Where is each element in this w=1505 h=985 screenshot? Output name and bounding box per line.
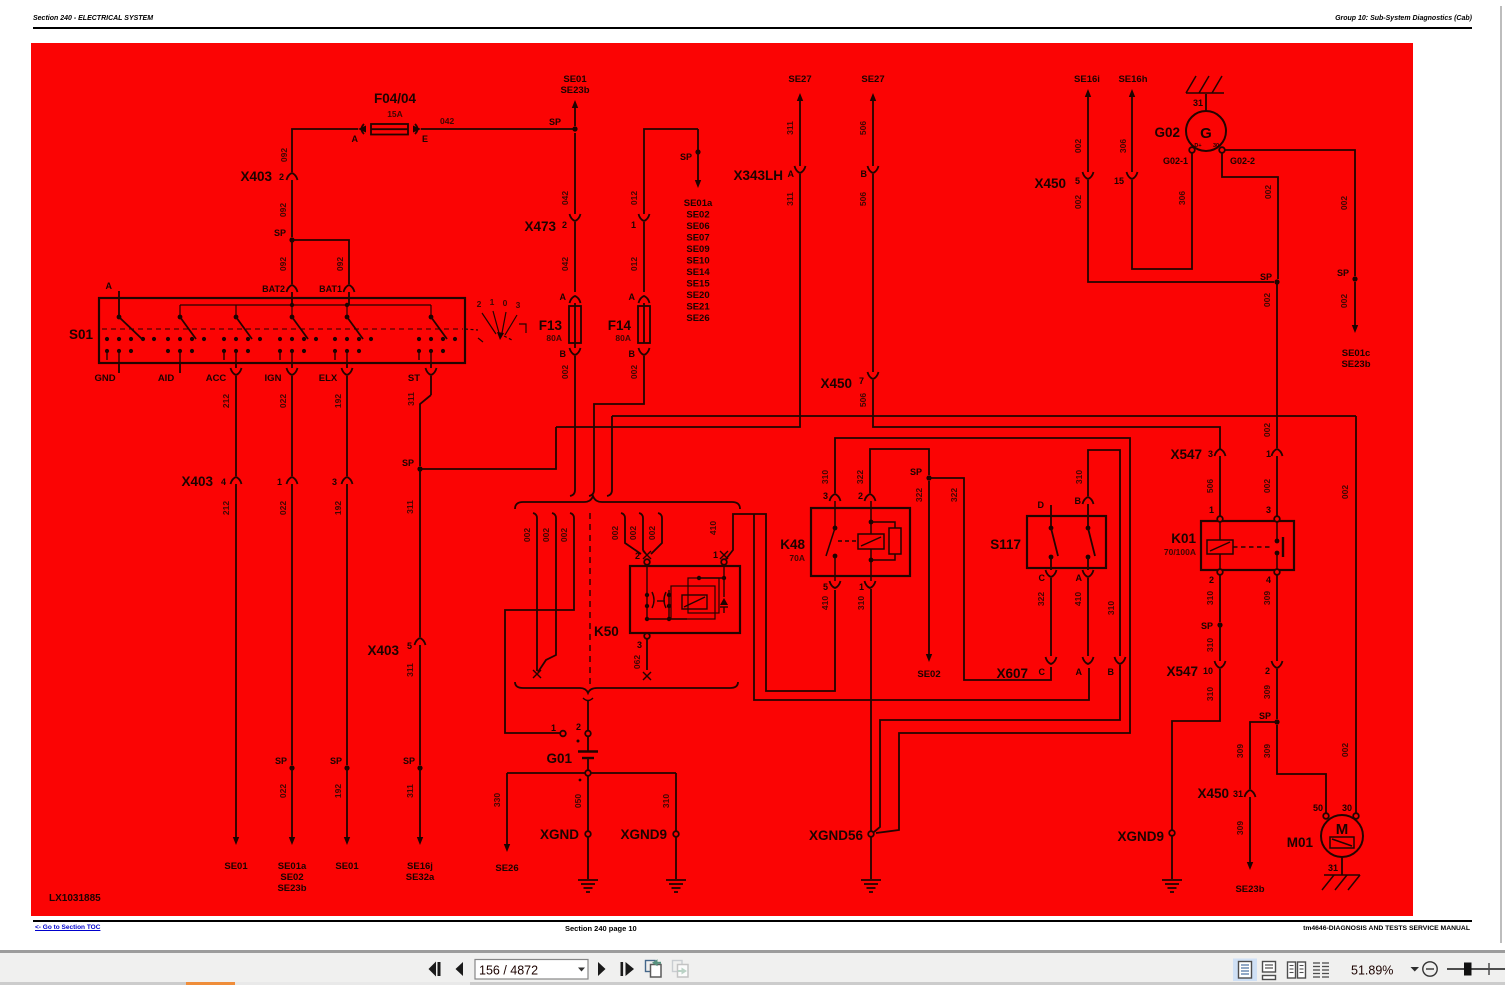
svg-text:002: 002 (1339, 294, 1349, 308)
svg-text:002: 002 (541, 528, 551, 542)
wire 192 SP to SE01 (346, 768, 348, 837)
svg-text:311: 311 (405, 784, 415, 798)
svg-text:SE07: SE07 (686, 233, 709, 244)
node SP on ST wire (417, 466, 422, 471)
starter motor M01 (1323, 813, 1329, 819)
wire 306 SE16h to X450-15 (1129, 89, 1135, 97)
svg-text:X450: X450 (820, 376, 852, 391)
wire 092 X403-2 to SP (291, 180, 293, 237)
svg-text:B: B (560, 349, 567, 359)
svg-text:SP: SP (1201, 621, 1213, 631)
svg-text:X403: X403 (240, 169, 272, 184)
svg-text:SE02: SE02 (280, 872, 303, 883)
svg-text:0: 0 (503, 298, 508, 308)
footer TOC link (35, 924, 100, 931)
K48 switch contact (826, 501, 857, 581)
taskbar light segment (235, 982, 470, 985)
svg-text:1: 1 (631, 220, 636, 230)
svg-text:SP: SP (275, 756, 287, 766)
svg-text:012: 012 (629, 191, 639, 205)
wire 002 G02-2 east run (1225, 150, 1355, 276)
K48 pin 1 (865, 581, 876, 588)
svg-text:IGN: IGN (265, 373, 282, 384)
wire 309 X450-31 to SE23b (1249, 797, 1251, 862)
svg-text:2: 2 (279, 172, 284, 182)
wire 002 F14 to bus brace (589, 356, 644, 496)
svg-text:X403: X403 (181, 474, 213, 489)
svg-text:192: 192 (333, 501, 343, 515)
node SP above SE01a list (697, 129, 699, 150)
wire 002 SP to X547-1 (1276, 282, 1278, 448)
alternator G02 (1186, 111, 1226, 151)
svg-text:G: G (1200, 125, 1212, 142)
wire 311 X343LH-A south run (556, 174, 800, 427)
footer rule (33, 920, 1472, 922)
svg-text:30: 30 (1213, 143, 1219, 149)
svg-text:4: 4 (1266, 575, 1271, 585)
wire 002 F13 to bus brace (574, 343, 576, 348)
connector X343LH pin B (868, 166, 879, 173)
svg-text:SE15: SE15 (686, 279, 710, 290)
svg-text:002: 002 (647, 526, 657, 540)
svg-text:F04/04: F04/04 (374, 91, 417, 106)
svg-text:SE01c: SE01c (1342, 348, 1371, 359)
wire 012 X343LH loop to X473-1 (644, 129, 698, 214)
svg-text:322: 322 (855, 470, 865, 484)
ground XGND9 (673, 831, 679, 837)
connector X450 pin 15 (1127, 172, 1138, 179)
S01 internal linkage rail (180, 305, 431, 317)
svg-text:310: 310 (1205, 591, 1215, 605)
svg-text:002: 002 (629, 365, 639, 379)
svg-text:5: 5 (823, 582, 828, 592)
wire 322 K48-2 to SP (870, 449, 929, 493)
wire 042 X473-2 to F13 (574, 222, 576, 292)
svg-text:410: 410 (1073, 592, 1083, 606)
svg-text:A: A (1076, 573, 1083, 583)
node SP on 192 wire (344, 765, 349, 770)
fuse F13 80A (539, 292, 581, 359)
wire 092 SP to BAT2 (291, 240, 293, 284)
svg-text:SE01: SE01 (335, 861, 359, 872)
svg-text:092: 092 (279, 148, 289, 162)
relay K01 70/100A (1201, 521, 1294, 570)
K50 pin 2 (643, 551, 651, 559)
G02 terminal G02-1 (1189, 147, 1195, 153)
fuse F14 80A (608, 292, 650, 359)
svg-text:30: 30 (1342, 803, 1352, 813)
svg-text:3: 3 (516, 300, 521, 310)
svg-text:SE01a: SE01a (684, 198, 713, 209)
next page button (598, 962, 606, 976)
wire 022 SP to SE01a (291, 768, 293, 837)
svg-text:SE06: SE06 (686, 221, 709, 232)
svg-text:506: 506 (858, 192, 868, 206)
svg-text:050: 050 (573, 794, 583, 808)
bundle brace lower (515, 682, 738, 693)
svg-text:SE23b: SE23b (1341, 359, 1370, 370)
svg-text:70A: 70A (789, 553, 805, 563)
svg-text:XGND9: XGND9 (620, 827, 667, 842)
svg-text:042: 042 (560, 257, 570, 271)
wire 309 X547-2 to SP (1276, 669, 1278, 719)
K01 pin 3 (1274, 516, 1280, 522)
svg-text:1: 1 (859, 582, 864, 592)
svg-text:SE01: SE01 (224, 861, 248, 872)
splice mark at brace end (533, 670, 541, 678)
svg-text:SE32a: SE32a (406, 872, 435, 883)
taskbar orange progress segment (186, 982, 235, 985)
svg-text:002: 002 (559, 528, 569, 542)
two page layout button (1288, 962, 1306, 978)
svg-text:322: 322 (949, 488, 959, 502)
svg-text:F14: F14 (608, 318, 632, 333)
ground XGND (585, 831, 591, 837)
svg-text:3: 3 (1208, 449, 1213, 459)
svg-text:C: C (1039, 573, 1046, 583)
connector X450 pin 31 (1245, 790, 1256, 797)
svg-text:002: 002 (610, 526, 620, 540)
zoom slider tick (1488, 963, 1490, 975)
svg-text:M01: M01 (1287, 835, 1314, 850)
S117 pin C (1046, 570, 1057, 577)
chassis ground G02 (1186, 76, 1224, 93)
svg-text:002: 002 (560, 365, 570, 379)
svg-text:506: 506 (858, 393, 868, 407)
node SP to SE01c (1352, 276, 1357, 281)
svg-text:SP: SP (402, 458, 414, 468)
S117 pin A (1083, 570, 1094, 577)
svg-text:310: 310 (856, 596, 866, 610)
svg-text:31: 31 (1193, 98, 1203, 108)
wire 002 branch a (533, 513, 537, 671)
wire 410 K50-1 to K48-5 (726, 514, 835, 691)
wire 311 SP to SE16j (419, 768, 421, 837)
svg-text:M: M (1336, 821, 1349, 838)
node SP at F04 output (572, 126, 577, 131)
connector X473 pin 2 (570, 214, 581, 221)
zoom slider knob (1464, 963, 1472, 976)
svg-text:092: 092 (278, 203, 288, 217)
svg-text:1: 1 (713, 550, 718, 560)
K01 pin 4 (1274, 569, 1280, 575)
footer center page label (565, 924, 637, 933)
connector X547 pin 3 (1215, 449, 1226, 456)
S117 pole B-A (1087, 504, 1089, 528)
svg-text:330: 330 (492, 793, 502, 807)
svg-text:SP: SP (1260, 272, 1272, 282)
S01 IGN terminal (291, 363, 293, 368)
wire 022 IGN to X403-1 (291, 376, 293, 476)
svg-text:311: 311 (785, 192, 795, 206)
svg-text:002: 002 (1262, 423, 1272, 437)
wire 212 X403-4 to SE01 (235, 484, 237, 837)
wire 322 S117-C to X607-C (1050, 578, 1052, 656)
svg-text:X547: X547 (1170, 447, 1202, 462)
battery positive bus 002 horizontal (612, 415, 1356, 417)
wire 311 SP to X403-5 (419, 469, 421, 637)
footer right manual label (1303, 925, 1470, 932)
K48 pin 2 (865, 494, 876, 501)
wire 506 SE27 to X343LH-B (870, 93, 876, 101)
svg-text:212: 212 (221, 394, 231, 408)
previous view icon (646, 961, 656, 972)
svg-text:3: 3 (332, 477, 337, 487)
wire 050 to XGND (587, 776, 589, 831)
wire 042 fuse to SP (421, 128, 575, 130)
svg-text:SE02: SE02 (917, 669, 940, 680)
svg-text:309: 309 (1235, 821, 1245, 835)
M01 pin 31 to chassis (1341, 857, 1343, 875)
svg-text:SE21: SE21 (686, 302, 710, 313)
wire 322 SP to SE02 (928, 481, 930, 654)
svg-text:SE02: SE02 (686, 210, 709, 221)
svg-text:ELX: ELX (319, 373, 338, 384)
svg-text:SP: SP (1259, 711, 1271, 721)
svg-text:1: 1 (551, 723, 556, 733)
wire 311 X403-5 to SP (419, 645, 421, 765)
svg-text:SE23b: SE23b (560, 85, 589, 96)
wire SP to SE01a group list (697, 152, 699, 180)
svg-text:G02-1: G02-1 (1163, 156, 1188, 166)
svg-text:XGND56: XGND56 (809, 828, 864, 843)
svg-text:X473: X473 (524, 219, 556, 234)
wire 410 branch to X607-A (754, 514, 1089, 700)
S117 pole D-C (1049, 526, 1054, 531)
svg-text:310: 310 (1106, 601, 1116, 615)
wire 022 X403-1 to SP (291, 484, 293, 765)
svg-text:5: 5 (407, 641, 412, 651)
connector X607 pin A (1083, 657, 1094, 664)
svg-text:3: 3 (1266, 505, 1271, 515)
connector X403 pin 5 (415, 638, 426, 645)
node SP lower ST (417, 765, 422, 770)
svg-text:X450: X450 (1197, 786, 1229, 801)
svg-text:X343LH: X343LH (733, 168, 783, 183)
svg-text:1: 1 (1209, 505, 1214, 515)
wire 506 X450-7 to X547-3 run (873, 380, 1220, 449)
svg-text:SE23b: SE23b (277, 883, 306, 894)
key switch S01 (99, 298, 465, 363)
S01 AID terminal (179, 363, 181, 373)
svg-text:311: 311 (405, 663, 415, 677)
svg-text:2: 2 (477, 299, 482, 309)
svg-text:B: B (629, 349, 636, 359)
svg-text:70/100A: 70/100A (1164, 547, 1196, 557)
wire 506 X547-3 to K01-1 (1219, 456, 1221, 516)
svg-text:SP: SP (1337, 268, 1349, 278)
wire 062 K50-3 (646, 639, 648, 670)
wire 310 K01-2 to SP (1219, 575, 1221, 622)
svg-text:G02: G02 (1154, 125, 1180, 140)
wire 310 S117-B to X607-B (1088, 450, 1120, 656)
wire 002 K50 feed b (639, 513, 646, 554)
svg-text:SE26: SE26 (495, 863, 518, 874)
svg-text:322: 322 (914, 488, 924, 502)
node SP on 309 wire (1274, 719, 1279, 724)
svg-text:A: A (560, 292, 567, 302)
svg-text:2: 2 (1265, 666, 1270, 676)
svg-text:002: 002 (522, 528, 532, 542)
wire 309 SP to M01-50 (1277, 725, 1326, 813)
K01 coil (1207, 522, 1270, 569)
svg-text:062: 062 (632, 655, 642, 669)
svg-text:A: A (352, 134, 359, 144)
svg-text:X607: X607 (996, 666, 1028, 681)
svg-text:002: 002 (1340, 485, 1350, 499)
wire 310 K48-3 to XGND56 loop (835, 438, 1130, 833)
svg-text:022: 022 (278, 394, 288, 408)
svg-text:309: 309 (1262, 685, 1272, 699)
svg-text:15A: 15A (387, 109, 403, 119)
svg-text:XGND: XGND (540, 827, 579, 842)
viewer scrollbar edge (1500, 6, 1502, 943)
zoom slider track (1447, 968, 1505, 970)
svg-text:7: 7 (859, 376, 864, 386)
node SP on 322 net (926, 475, 931, 480)
wire 002 G02-2 to SP right (1222, 153, 1278, 279)
S01 ELX terminal (346, 363, 348, 368)
wire 002 battery bus to M01-30 (1355, 416, 1357, 813)
wire 310 X607-B to XGND56 (874, 665, 1120, 832)
svg-text:E: E (422, 134, 428, 144)
svg-text:SP: SP (549, 117, 561, 127)
S117 pin B (1083, 497, 1094, 504)
svg-text:322: 322 (1036, 592, 1046, 606)
battery G01 (546, 722, 598, 770)
wire 002 X547-1 to K01-3 (1276, 456, 1278, 516)
svg-text:2: 2 (576, 722, 581, 732)
switch S117 (1027, 516, 1106, 568)
fuse F04/04 15A (352, 91, 429, 144)
svg-text:F13: F13 (539, 318, 563, 333)
node SP on 310 wire (1217, 622, 1222, 627)
svg-text:5: 5 (1075, 176, 1080, 186)
S01 terminal A stub (118, 291, 120, 317)
svg-text:K48: K48 (780, 537, 805, 552)
svg-text:309: 309 (1235, 744, 1245, 758)
svg-text:212: 212 (221, 501, 231, 515)
wire 311 ST to SP (430, 376, 432, 395)
S117 pin D (1050, 505, 1052, 528)
wire 192 ELX to X403-3 (346, 376, 348, 476)
connector X403 pin 2 (287, 173, 298, 180)
svg-text:410: 410 (820, 596, 830, 610)
single page layout button (selected) (1233, 959, 1257, 982)
taskbar strip (0, 982, 1505, 985)
svg-text:31: 31 (1328, 863, 1338, 873)
svg-text:XGND9: XGND9 (1117, 829, 1164, 844)
wire 311 ST-SP east run (420, 427, 556, 469)
svg-text:310: 310 (1205, 638, 1215, 652)
svg-text:SP: SP (680, 152, 692, 162)
S01 GND terminal (118, 363, 120, 373)
svg-text:002: 002 (1262, 479, 1272, 493)
svg-text:ST: ST (408, 373, 420, 384)
svg-text:K01: K01 (1171, 531, 1196, 546)
wire 002 X450-5 to SP (1088, 180, 1274, 282)
svg-text:80A: 80A (546, 333, 562, 343)
wire 092 SP to BAT1 (292, 240, 349, 284)
wire brace to G01-2 (587, 701, 589, 731)
wire 212 ACC to X403-4 (235, 376, 237, 476)
wire 192 X403-3 to SP (346, 484, 348, 765)
toolbar widgets svg (0, 950, 1505, 985)
connector BAT1 (344, 285, 355, 292)
svg-text:192: 192 (333, 394, 343, 408)
svg-text:306: 306 (1118, 139, 1128, 153)
svg-text:GND: GND (94, 373, 115, 384)
svg-text:G01: G01 (546, 751, 572, 766)
svg-text:80A: 80A (615, 333, 631, 343)
svg-text:309: 309 (1262, 744, 1272, 758)
K01 contact (1275, 522, 1283, 569)
connector X547 pin 1 (1272, 449, 1283, 456)
node SP on 022 wire (289, 765, 294, 770)
svg-text:X403: X403 (367, 643, 399, 658)
svg-text:SE14: SE14 (686, 267, 710, 278)
ground XGND56 (868, 831, 874, 837)
S01 switch poles (117, 315, 447, 339)
prev page button (456, 962, 464, 976)
svg-text:042: 042 (440, 116, 454, 126)
svg-text:4: 4 (221, 477, 226, 487)
connector X607 pin B (1115, 657, 1126, 664)
svg-text:310: 310 (820, 470, 830, 484)
svg-text:311: 311 (785, 121, 795, 135)
svg-text:306: 306 (1177, 191, 1187, 205)
svg-text:SE27: SE27 (861, 74, 884, 85)
svg-text:2: 2 (858, 491, 863, 501)
S01 ST terminal (430, 363, 432, 368)
svg-text:410: 410 (708, 521, 718, 535)
svg-text:2: 2 (1209, 575, 1214, 585)
G02 terminal G02-2 (1219, 147, 1225, 153)
svg-text:B: B (1108, 667, 1115, 677)
connector BAT2 (287, 285, 298, 292)
svg-text:310: 310 (661, 794, 671, 808)
svg-text:SE10: SE10 (686, 256, 709, 267)
connector X450 pin 7 (868, 372, 879, 379)
K01 pin 2 (1217, 569, 1223, 575)
svg-text:BAT2: BAT2 (262, 284, 285, 294)
relay K48 70A (811, 508, 910, 576)
svg-text:SE16j: SE16j (407, 861, 433, 872)
svg-text:2: 2 (562, 220, 567, 230)
wire 330 to SE26 (506, 773, 508, 844)
wire 410 S117-A to X607-A (1087, 578, 1089, 656)
svg-text:10: 10 (1203, 666, 1213, 676)
brace node tick (583, 698, 593, 701)
K50 internal contacts (645, 565, 728, 621)
svg-text:192: 192 (333, 784, 343, 798)
connector X473 pin 1 (639, 214, 650, 221)
header rule (33, 27, 1472, 29)
svg-text:002: 002 (1073, 139, 1083, 153)
svg-text:SE23b: SE23b (1235, 884, 1264, 895)
svg-text:022: 022 (278, 501, 288, 515)
svg-text:K50: K50 (594, 624, 619, 639)
relay K50 (630, 566, 740, 633)
wire 310 SP to X547-10 (1219, 625, 1221, 661)
svg-text:SE16h: SE16h (1118, 74, 1147, 85)
svg-text:1: 1 (1266, 449, 1271, 459)
wire 311 SE27 to X343LH-A (797, 93, 803, 101)
svg-text:3: 3 (823, 491, 828, 501)
svg-text:SE26: SE26 (686, 313, 709, 324)
connector X547 pin 2 (1272, 661, 1283, 668)
svg-text:51.89%: 51.89% (1351, 964, 1393, 978)
